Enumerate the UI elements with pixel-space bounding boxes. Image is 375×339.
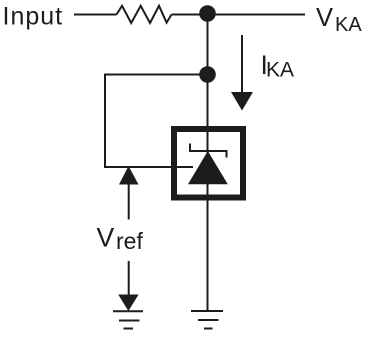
ground center [191,311,223,329]
ref arrow down [118,295,138,312]
wire cathode vertical [207,14,209,312]
wire node to ref loop horizontal [105,74,208,76]
svg-text:V: V [97,223,115,253]
wire Vref upper segment [128,184,130,220]
wire ref loop to box [104,166,193,168]
ref arrow up [119,166,139,185]
op-amp U1 box [174,129,243,198]
svg-text:V: V [316,4,333,32]
node junction ref [199,66,216,83]
current arrow IKA [241,35,243,94]
resistor R1 [117,6,172,23]
wire ref loop vertical [104,74,106,169]
svg-text:KA: KA [335,14,362,36]
wire Input to resistor [74,14,117,16]
TL431 anode triangle [188,151,228,184]
ground left [113,311,143,328]
svg-text:KA: KA [266,59,294,82]
wire Vref lower segment [128,261,130,295]
svg-text:Input: Input [3,3,64,31]
svg-text:ref: ref [116,228,143,254]
wire resistor to VKA [172,14,306,16]
TL431 cathode bar [190,144,227,158]
node junction top [199,5,216,22]
